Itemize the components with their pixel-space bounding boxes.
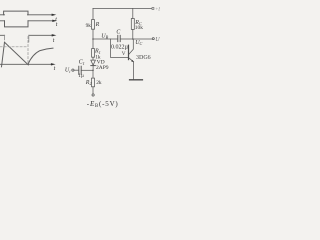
wire: capacitor C1 to node A bbox=[81, 69, 93, 71]
svg-text:+E: +E bbox=[155, 8, 160, 13]
plot 3 rise edge at pulse end bbox=[28, 35, 30, 42]
resistor R2 body bbox=[92, 78, 95, 87]
plot 3 drop edge at pulse start bbox=[4, 35, 6, 40]
plot 2 axis (high level) bbox=[0, 20, 54, 22]
wire: emitter down to ground bbox=[133, 62, 135, 79]
svg-text:1µ: 1µ bbox=[78, 73, 84, 79]
svg-text:R: R bbox=[95, 22, 100, 28]
wire: rail down to resistor RC bbox=[132, 8, 134, 18]
transistor collector bbox=[129, 39, 133, 54]
node C junction bbox=[132, 38, 134, 40]
wire: node B riser down to transistor base bbox=[111, 39, 129, 58]
svg-text:UC: UC bbox=[135, 40, 142, 46]
svg-text:9k: 9k bbox=[86, 23, 92, 29]
wire: diode cathode to node A bbox=[92, 66, 94, 71]
supply rail wire (top) bbox=[93, 7, 152, 9]
capacitor C1 plates bbox=[79, 66, 81, 74]
svg-text:R2: R2 bbox=[85, 80, 92, 86]
plot 3 top axis arrowhead bbox=[52, 34, 57, 36]
resistor R body bbox=[92, 20, 95, 30]
wire: node B to capacitor C bbox=[93, 38, 118, 40]
wire: terminal Ui to capacitor C1 bbox=[74, 69, 79, 71]
svg-text:-EB(-5V): -EB(-5V) bbox=[87, 100, 119, 109]
svg-text:10k: 10k bbox=[135, 25, 143, 31]
transistor V base bar bbox=[128, 45, 130, 59]
svg-text:2AP9: 2AP9 bbox=[96, 65, 109, 71]
plot 3 top level axis bbox=[0, 34, 54, 36]
plot 3 sawtooth pre-rise bbox=[2, 42, 5, 67]
wire: RC bottom to node C bbox=[132, 29, 134, 39]
input terminal Ui bbox=[72, 69, 74, 71]
plot 1 axis bbox=[0, 14, 54, 16]
wire: capacitor C to node C bbox=[120, 38, 133, 40]
wire: rail corner down to resistor R bbox=[92, 8, 94, 19]
svg-text:C1: C1 bbox=[79, 60, 85, 66]
ground bbox=[130, 79, 143, 81]
diode VD bbox=[91, 60, 96, 65]
svg-text:3DG6: 3DG6 bbox=[136, 55, 151, 61]
node B junction bbox=[92, 38, 94, 40]
svg-text:0.022µ: 0.022µ bbox=[111, 45, 129, 51]
resistor RC body bbox=[131, 19, 134, 30]
plot 2 axis arrowhead bbox=[52, 20, 57, 22]
resistor R1 body bbox=[92, 49, 95, 58]
wire: node C to output terminal bbox=[133, 38, 152, 40]
output terminal Uo bbox=[152, 38, 154, 40]
node A junction bbox=[92, 70, 94, 72]
svg-text:C: C bbox=[116, 29, 120, 35]
svg-text:UB: UB bbox=[101, 33, 108, 39]
plot 1 axis arrowhead bbox=[52, 14, 57, 16]
plot 2 inverted pulse waveform bbox=[5, 21, 29, 27]
plot 1 pulse waveform bbox=[4, 11, 28, 15]
plot 3 bottom axis bbox=[0, 63, 53, 65]
terminal -EB bbox=[92, 94, 94, 96]
wire: R2 bottom to terminal bbox=[92, 87, 94, 94]
plot 3 dashed vertical at pulse end bbox=[27, 37, 29, 65]
plot 3 sawtooth ramp bbox=[5, 42, 29, 65]
capacitor C plates bbox=[118, 35, 120, 41]
wire: node A down to R2 bbox=[92, 70, 94, 78]
wire: R1 bottom to diode bbox=[92, 57, 94, 60]
svg-text:Ui: Ui bbox=[65, 68, 71, 74]
svg-text:U: U bbox=[155, 37, 160, 43]
plot 3 dashed level line bbox=[0, 46, 28, 48]
svg-text:2k: 2k bbox=[96, 80, 102, 86]
terminal +E (top right) bbox=[152, 8, 154, 10]
transistor emitter with arrow bbox=[129, 58, 134, 62]
plot 3 bottom axis arrowhead bbox=[51, 63, 56, 65]
wire: node B to R1 top bbox=[92, 39, 94, 49]
plot 3 recovery curve bbox=[28, 48, 53, 64]
wire: R bottom to node B bbox=[92, 29, 94, 39]
svg-text:V: V bbox=[122, 51, 126, 57]
